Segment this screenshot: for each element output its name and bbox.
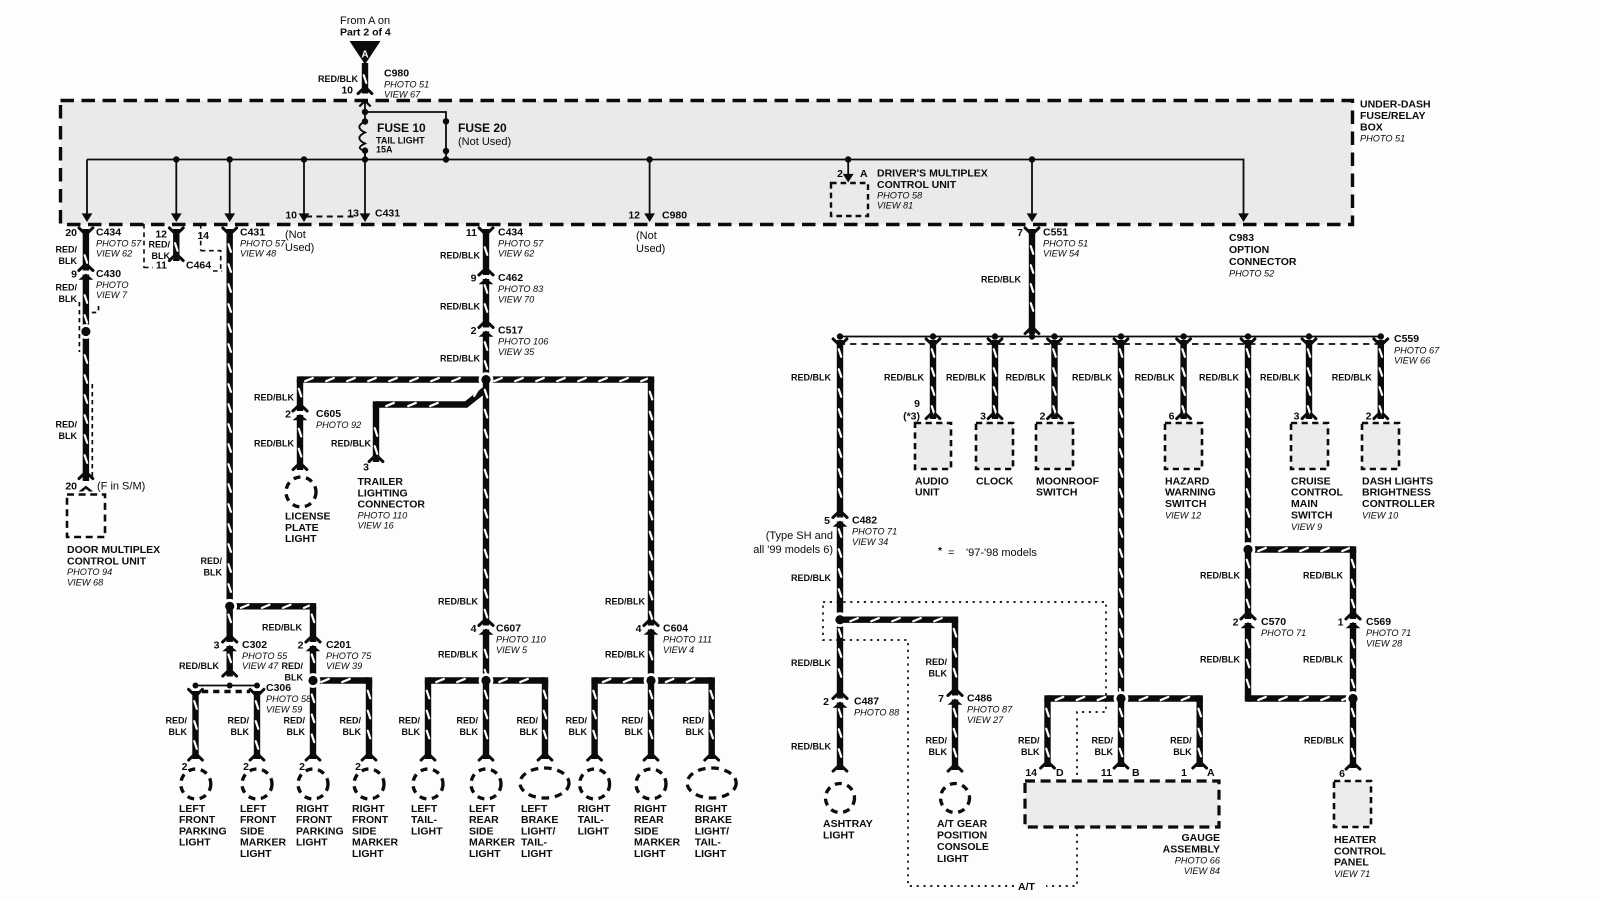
junction to console lights (833, 612, 848, 627)
svg-text:BLK: BLK (520, 727, 539, 737)
svg-text:PHOTO 110: PHOTO 110 (496, 635, 547, 645)
svg-text:RED/BLK: RED/BLK (254, 393, 294, 403)
svg-text:LIGHT: LIGHT (352, 848, 384, 860)
wire to C482 / ashtray (837, 340, 843, 770)
svg-text:PHOTO 88: PHOTO 88 (854, 708, 900, 718)
svg-text:AUDIO: AUDIO (915, 475, 949, 487)
svg-text:RED/BLK: RED/BLK (791, 573, 831, 583)
svg-text:CONNECTOR: CONNECTOR (358, 499, 426, 511)
svg-text:BLK: BLK (460, 727, 479, 737)
dashed outline around C464 (144, 224, 222, 271)
svg-text:(Not: (Not (636, 230, 657, 242)
svg-text:LIGHT: LIGHT (521, 848, 553, 860)
svg-text:PHOTO 71: PHOTO 71 (1366, 628, 1411, 638)
svg-text:BLK: BLK (169, 727, 188, 737)
svg-text:ASHTRAY: ASHTRAY (823, 818, 873, 830)
wire junction to right front lights (313, 677, 369, 683)
svg-text:RED/BLK: RED/BLK (791, 372, 831, 382)
connector C306 line (196, 685, 258, 687)
wire to heater control panel (1350, 699, 1356, 769)
svg-text:Part 2 of 4: Part 2 of 4 (340, 27, 391, 39)
svg-text:9: 9 (914, 398, 920, 410)
svg-text:11: 11 (466, 227, 477, 239)
svg-text:BLK: BLK (59, 431, 78, 441)
bus line in fuse box (87, 160, 1244, 214)
svg-text:PHOTO 87: PHOTO 87 (967, 705, 1013, 715)
dashed S/M alternate wire (79, 302, 98, 477)
dashed link inside C306 (202, 690, 250, 693)
svg-text:2: 2 (243, 761, 249, 773)
svg-text:RIGHT: RIGHT (695, 803, 728, 815)
wire to audio unit (930, 340, 936, 419)
svg-text:Used): Used) (285, 242, 314, 254)
wire C306 to left front parking light (192, 691, 198, 759)
svg-text:BLK: BLK (1173, 747, 1192, 757)
svg-text:RED/: RED/ (682, 715, 704, 725)
svg-text:C559: C559 (1394, 333, 1419, 345)
svg-text:9: 9 (71, 269, 77, 281)
svg-text:RED/: RED/ (339, 715, 361, 725)
svg-text:LEFT: LEFT (179, 803, 206, 815)
svg-text:9: 9 (471, 273, 477, 285)
svg-text:PHOTO 51: PHOTO 51 (384, 80, 429, 90)
svg-text:CONSOLE: CONSOLE (937, 841, 989, 853)
dashed link pin10 to pin13 (306, 215, 358, 217)
fuse 20 branch (not used) (365, 112, 446, 160)
svg-text:PARKING: PARKING (179, 825, 227, 837)
svg-text:SWITCH: SWITCH (1165, 498, 1206, 510)
wire to right brake light (709, 681, 715, 760)
wire to C302 (226, 606, 232, 676)
svg-text:PHOTO 58: PHOTO 58 (266, 694, 312, 704)
svg-text:VIEW 48: VIEW 48 (240, 249, 277, 259)
svg-text:C201: C201 (326, 639, 351, 651)
dash lights brightness controller (1362, 423, 1399, 469)
junction on door wire (79, 324, 94, 339)
svg-text:LIGHT: LIGHT (179, 837, 211, 849)
svg-text:LEFT: LEFT (469, 803, 496, 815)
connector 20 (F in S/M) (77, 483, 95, 487)
left brake light / tail light (520, 768, 569, 798)
svg-text:all '99 models 6): all '99 models 6) (753, 544, 833, 556)
svg-text:PHOTO 58: PHOTO 58 (877, 191, 923, 201)
gauge assembly box (1025, 781, 1219, 827)
svg-text:A/T: A/T (1018, 881, 1036, 893)
svg-text:FUSE 20: FUSE 20 (458, 121, 507, 135)
svg-text:RED/: RED/ (200, 556, 222, 566)
svg-text:VIEW 27: VIEW 27 (967, 715, 1004, 725)
svg-text:RED/BLK: RED/BLK (605, 649, 645, 659)
left rear side marker light (471, 769, 501, 799)
svg-text:VIEW 28: VIEW 28 (1366, 639, 1403, 649)
svg-text:3: 3 (980, 411, 986, 423)
right brake light / tail light (687, 768, 736, 798)
svg-text:RED/: RED/ (925, 657, 947, 667)
svg-text:GAUGE: GAUGE (1181, 832, 1220, 844)
junction (297, 376, 303, 382)
branch drops from bus to box connectors (86, 160, 88, 214)
svg-text:VIEW 12: VIEW 12 (1165, 511, 1201, 521)
svg-text:CONTROLLER: CONTROLLER (1362, 498, 1435, 510)
lower link C570-C569 (1248, 695, 1353, 701)
svg-text:2: 2 (299, 761, 305, 773)
svg-text:C517: C517 (498, 325, 523, 337)
svg-text:LIGHT/: LIGHT/ (695, 825, 729, 837)
svg-text:RED/BLK: RED/BLK (254, 439, 294, 449)
svg-text:D: D (1056, 767, 1064, 779)
svg-text:PHOTO 94: PHOTO 94 (67, 567, 112, 577)
svg-text:RED/BLK: RED/BLK (946, 372, 986, 382)
svg-text:RED/BLK: RED/BLK (331, 439, 371, 449)
svg-text:RED/BLK: RED/BLK (179, 661, 219, 671)
svg-text:RED/: RED/ (1018, 735, 1040, 745)
svg-text:LIGHT: LIGHT (411, 825, 443, 837)
wire C551 pin 7 to dash bus (1029, 229, 1035, 334)
wire to C605 / license plate light (297, 380, 303, 470)
svg-text:BRAKE: BRAKE (521, 814, 558, 826)
svg-text:REAR: REAR (469, 814, 499, 826)
svg-text:RED/BLK: RED/BLK (1303, 654, 1343, 664)
svg-text:RED/: RED/ (148, 239, 170, 249)
svg-text:(Not: (Not (285, 229, 306, 241)
svg-text:A: A (361, 50, 368, 61)
svg-text:UNDER-DASH: UNDER-DASH (1360, 99, 1431, 111)
svg-text:12: 12 (628, 210, 640, 222)
svg-text:FRONT: FRONT (352, 814, 389, 826)
svg-text:UNIT: UNIT (915, 487, 940, 499)
svg-text:Used): Used) (636, 243, 665, 255)
svg-text:C306: C306 (266, 682, 291, 694)
svg-text:FUSE/RELAY: FUSE/RELAY (1360, 110, 1426, 122)
svg-text:C486: C486 (967, 693, 992, 705)
license plate light (286, 477, 316, 507)
svg-text:BLK: BLK (1095, 747, 1114, 757)
svg-text:PHOTO 55: PHOTO 55 (242, 651, 288, 661)
svg-text:C430: C430 (96, 268, 121, 280)
svg-text:C487: C487 (854, 696, 879, 708)
wire to C486 / A-T gear position console light (840, 617, 955, 623)
wire dash bus to C570/C569 (1245, 340, 1251, 550)
svg-text:VIEW 68: VIEW 68 (67, 578, 104, 588)
svg-text:2: 2 (182, 761, 188, 773)
svg-text:2: 2 (837, 168, 843, 180)
svg-text:VIEW 81: VIEW 81 (877, 201, 913, 211)
rear-left light distribution (428, 677, 545, 683)
audio unit (915, 423, 951, 469)
svg-text:RED/BLK: RED/BLK (1260, 372, 1300, 382)
svg-text:PHOTO 52: PHOTO 52 (1229, 269, 1274, 279)
svg-text:C431: C431 (240, 227, 265, 239)
svg-text:14: 14 (197, 230, 209, 242)
svg-text:VIEW 62: VIEW 62 (498, 249, 534, 259)
wire to right front side marker light (366, 681, 372, 760)
svg-text:20: 20 (65, 481, 77, 493)
svg-text:RED/BLK: RED/BLK (440, 354, 480, 364)
svg-text:SIDE: SIDE (634, 825, 659, 837)
svg-text:PLATE: PLATE (285, 522, 319, 534)
wire to right tail light (591, 681, 597, 760)
svg-text:RED/: RED/ (165, 715, 187, 725)
right tail light (580, 769, 610, 799)
svg-text:RIGHT: RIGHT (634, 803, 667, 815)
svg-text:LICENSE: LICENSE (285, 511, 331, 523)
svg-text:VIEW 34: VIEW 34 (852, 537, 888, 547)
svg-text:BLK: BLK (929, 668, 948, 678)
svg-text:BLK: BLK (343, 727, 362, 737)
wire gauge pin D (1044, 699, 1050, 768)
svg-text:BLK: BLK (59, 294, 78, 304)
right front side marker light (354, 769, 384, 799)
svg-text:4: 4 (471, 623, 477, 635)
svg-text:FRONT: FRONT (240, 814, 277, 826)
svg-text:LEFT: LEFT (521, 803, 548, 815)
svg-text:TRAILER: TRAILER (358, 476, 404, 488)
svg-text:BLK: BLK (285, 672, 304, 682)
svg-text:RED/BLK: RED/BLK (440, 302, 480, 312)
svg-text:RIGHT: RIGHT (352, 803, 385, 815)
svg-text:DOOR MULTIPLEX: DOOR MULTIPLEX (67, 544, 160, 556)
svg-text:PHOTO 75: PHOTO 75 (326, 651, 372, 661)
hazard warning switch (1165, 423, 1202, 469)
svg-text:ASSEMBLY: ASSEMBLY (1163, 843, 1220, 855)
svg-text:MARKER: MARKER (352, 837, 398, 849)
wire C980 pin 10 into box (362, 63, 368, 94)
svg-text:RED/: RED/ (398, 715, 420, 725)
svg-text:MARKER: MARKER (634, 837, 680, 849)
svg-text:LIGHT: LIGHT (634, 848, 666, 860)
svg-text:SIDE: SIDE (469, 825, 494, 837)
wire to moonroof switch (1051, 340, 1057, 419)
svg-text:C302: C302 (242, 639, 267, 651)
svg-text:C462: C462 (498, 272, 523, 284)
svg-text:RED/: RED/ (565, 715, 587, 725)
svg-text:(*3): (*3) (903, 411, 920, 423)
svg-text:RED/BLK: RED/BLK (1304, 735, 1344, 745)
svg-text:LIGHT: LIGHT (695, 848, 727, 860)
svg-text:2: 2 (298, 640, 304, 652)
wire C201 branch (310, 606, 316, 759)
svg-text:RED/BLK: RED/BLK (981, 275, 1021, 285)
svg-text:RED/: RED/ (55, 419, 77, 429)
svg-text:PHOTO 66: PHOTO 66 (1175, 856, 1221, 866)
svg-text:REAR: REAR (634, 814, 664, 826)
svg-text:7: 7 (1017, 227, 1023, 239)
svg-text:SIDE: SIDE (352, 825, 377, 837)
svg-text:C980: C980 (662, 210, 687, 222)
svg-text:2: 2 (285, 409, 291, 421)
svg-text:FRONT: FRONT (296, 814, 333, 826)
svg-text:RED/: RED/ (55, 282, 77, 292)
svg-text:TAIL-: TAIL- (695, 837, 722, 849)
svg-text:BRAKE: BRAKE (695, 814, 732, 826)
svg-text:CRUISE: CRUISE (1291, 475, 1331, 487)
right rear side marker light (636, 769, 666, 799)
svg-text:BLK: BLK (402, 727, 421, 737)
svg-text:SWITCH: SWITCH (1291, 509, 1332, 521)
svg-text:11: 11 (156, 260, 167, 272)
wire C434 pin 11 trunk (483, 229, 489, 380)
svg-text:B: B (1132, 767, 1140, 779)
svg-text:11: 11 (1101, 767, 1112, 779)
svg-text:A: A (1207, 767, 1215, 779)
svg-text:=: = (948, 547, 954, 559)
svg-text:RED/: RED/ (281, 661, 303, 671)
left front parking light (181, 769, 211, 799)
svg-text:BRIGHTNESS: BRIGHTNESS (1362, 487, 1431, 499)
svg-text:RED/BLK: RED/BLK (1006, 372, 1046, 382)
svg-text:C434: C434 (498, 227, 523, 239)
svg-text:VIEW 67: VIEW 67 (384, 90, 421, 100)
svg-text:3: 3 (214, 640, 220, 652)
right front parking light (298, 769, 328, 799)
svg-text:LIGHT: LIGHT (937, 853, 969, 865)
svg-text:2: 2 (1366, 411, 1372, 423)
svg-text:MARKER: MARKER (469, 837, 515, 849)
wire dash bus to gauge assembly (1118, 340, 1124, 699)
svg-text:2: 2 (1233, 617, 1239, 629)
svg-text:C607: C607 (496, 623, 521, 635)
svg-text:LIGHTING: LIGHTING (358, 487, 408, 499)
svg-text:BLK: BLK (929, 747, 948, 757)
svg-text:HEATER: HEATER (1334, 834, 1377, 846)
svg-text:PHOTO 57: PHOTO 57 (240, 239, 286, 249)
svg-text:6: 6 (1169, 411, 1175, 423)
svg-text:A: A (860, 168, 868, 180)
wire to trailer lighting connector (466, 390, 485, 405)
svg-text:CONTROL UNIT: CONTROL UNIT (67, 556, 147, 568)
svg-text:RIGHT: RIGHT (296, 803, 329, 815)
svg-text:2: 2 (823, 696, 829, 708)
svg-text:VIEW 54: VIEW 54 (1043, 249, 1079, 259)
svg-text:LIGHT: LIGHT (469, 848, 501, 860)
svg-text:VIEW 4: VIEW 4 (663, 645, 694, 655)
svg-text:PARKING: PARKING (296, 825, 344, 837)
wire to clock (992, 340, 998, 419)
svg-text:LIGHT: LIGHT (296, 837, 328, 849)
svg-text:VIEW 62: VIEW 62 (96, 249, 132, 259)
svg-text:2: 2 (1040, 411, 1046, 423)
svg-text:RED/: RED/ (456, 715, 478, 725)
svg-text:LIGHT/: LIGHT/ (521, 825, 555, 837)
svg-text:RED/BLK: RED/BLK (1200, 570, 1240, 580)
svg-text:OPTION: OPTION (1229, 244, 1269, 256)
svg-text:BOX: BOX (1360, 122, 1383, 134)
svg-text:RED/BLK: RED/BLK (1200, 654, 1240, 664)
wire trunk to C201 (230, 603, 313, 609)
svg-text:RED/: RED/ (516, 715, 538, 725)
svg-text:RED/: RED/ (283, 715, 305, 725)
distribution wire across (300, 376, 651, 382)
svg-text:PHOTO 51: PHOTO 51 (1043, 239, 1088, 249)
svg-text:RED/: RED/ (621, 715, 643, 725)
fuse 10 coil (359, 122, 365, 152)
svg-text:RED/: RED/ (227, 715, 249, 725)
heater control panel (1334, 781, 1371, 827)
svg-text:14: 14 (1025, 767, 1037, 779)
svg-text:DASH LIGHTS: DASH LIGHTS (1362, 475, 1433, 487)
svg-text:RED/BLK: RED/BLK (318, 74, 358, 84)
wire C434 pin 20 to door multiplex control unit (83, 229, 89, 481)
svg-text:RED/BLK: RED/BLK (262, 623, 302, 633)
svg-text:BLK: BLK (569, 727, 588, 737)
svg-text:MAIN: MAIN (1291, 498, 1318, 510)
wire to C569 (1350, 550, 1356, 699)
svg-text:RED/: RED/ (1170, 735, 1192, 745)
svg-text:RED/BLK: RED/BLK (791, 741, 831, 751)
svg-text:RED/BLK: RED/BLK (1332, 372, 1372, 382)
feed arrow into box (359, 101, 370, 107)
left front side marker light (242, 769, 272, 799)
moonroof switch (1036, 423, 1073, 469)
svg-text:'97-'98 models: '97-'98 models (966, 547, 1037, 559)
svg-text:CLOCK: CLOCK (976, 475, 1014, 487)
svg-text:PHOTO 57: PHOTO 57 (498, 239, 544, 249)
svg-text:7: 7 (938, 693, 944, 705)
svg-text:BLK: BLK (686, 727, 705, 737)
svg-text:RED/: RED/ (55, 244, 77, 254)
svg-text:C464: C464 (186, 260, 211, 272)
svg-text:POSITION: POSITION (937, 830, 987, 842)
svg-text:MOONROOF: MOONROOF (1036, 475, 1100, 487)
wire to left tail light (425, 681, 431, 760)
svg-text:2: 2 (471, 325, 477, 337)
svg-text:C980: C980 (384, 68, 409, 80)
svg-text:BLK: BLK (231, 727, 250, 737)
svg-text:6: 6 (1339, 768, 1345, 780)
svg-text:BLK: BLK (287, 727, 306, 737)
wire to left brake light (542, 681, 548, 760)
svg-text:VIEW 84: VIEW 84 (1184, 866, 1220, 876)
wire trunk to C607 (483, 380, 489, 681)
svg-text:HAZARD: HAZARD (1165, 475, 1210, 487)
svg-text:PHOTO 83: PHOTO 83 (498, 284, 544, 294)
driver's multiplex control unit (847, 161, 849, 175)
svg-text:LEFT: LEFT (411, 803, 438, 815)
svg-text:SWITCH: SWITCH (1036, 487, 1077, 499)
svg-text:CONTROL: CONTROL (1334, 845, 1386, 857)
wire to left rear side marker light (483, 681, 489, 760)
svg-text:RED/BLK: RED/BLK (438, 649, 478, 659)
svg-text:5: 5 (824, 515, 830, 527)
svg-text:RED/BLK: RED/BLK (884, 372, 924, 382)
svg-text:LEFT: LEFT (240, 803, 267, 815)
rear-right light distribution (595, 677, 712, 683)
svg-text:LIGHT: LIGHT (823, 829, 855, 841)
svg-text:RED/BLK: RED/BLK (438, 596, 478, 606)
svg-text:(Type SH and: (Type SH and (766, 530, 833, 542)
A/T region outline (823, 602, 1106, 886)
wire C431 pin 14 down-left trunk (226, 229, 232, 606)
wire gauge pin A (1196, 699, 1202, 768)
svg-text:CONTROL UNIT: CONTROL UNIT (877, 179, 957, 191)
svg-text:PHOTO 106: PHOTO 106 (498, 337, 549, 347)
svg-text:PANEL: PANEL (1334, 857, 1369, 869)
wire to right rear side marker light (648, 681, 654, 760)
svg-text:FUSE 10: FUSE 10 (377, 121, 426, 135)
svg-text:PHOTO 71: PHOTO 71 (852, 527, 897, 537)
svg-text:C482: C482 (852, 515, 877, 527)
svg-text:10: 10 (285, 210, 297, 222)
svg-text:LIGHT: LIGHT (240, 848, 272, 860)
svg-text:DRIVER'S MULTIPLEX: DRIVER'S MULTIPLEX (877, 168, 988, 180)
wire C306 to left front side marker light (254, 691, 260, 759)
svg-text:C605: C605 (316, 408, 341, 420)
svg-text:C604: C604 (663, 623, 688, 635)
svg-text:TAIL-: TAIL- (578, 814, 605, 826)
svg-text:C569: C569 (1366, 616, 1391, 628)
svg-text:2: 2 (355, 761, 361, 773)
svg-text:VIEW 71: VIEW 71 (1334, 869, 1370, 879)
